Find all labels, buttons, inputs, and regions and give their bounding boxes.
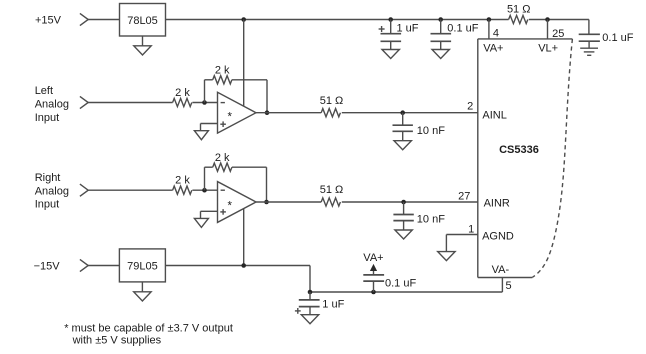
svg-text:2: 2 — [467, 101, 473, 113]
wire to AINR pin 27 — [342, 201, 478, 203]
svg-text:10 nF: 10 nF — [417, 213, 445, 225]
svg-text:78L05: 78L05 — [127, 15, 158, 27]
svg-text:1: 1 — [468, 223, 474, 235]
svg-text:51 Ω: 51 Ω — [507, 3, 531, 15]
svg-text:AINL: AINL — [482, 109, 506, 121]
wire op-amp U1 positive supply — [243, 20, 245, 107]
node +15V input label — [35, 15, 62, 27]
svg-text:AINR: AINR — [484, 198, 510, 210]
regulator U2 78L05 — [120, 4, 166, 37]
svg-text:* must be capable of ±3.7 V ou: * must be capable of ±3.7 V output — [64, 323, 233, 335]
svg-text:Input: Input — [35, 199, 59, 211]
svg-text:2 k: 2 k — [175, 175, 190, 187]
IC CS5336 body — [478, 39, 573, 278]
svg-text:Analog: Analog — [35, 185, 69, 197]
ground at U1 + input — [194, 124, 217, 140]
wire -15V input to regulator — [87, 265, 119, 267]
svg-text:VL+: VL+ — [538, 43, 558, 55]
resistor R3 51 ohm — [507, 3, 531, 23]
resistor R6 2k right input — [173, 175, 192, 195]
resistor R8 51 ohm right — [320, 184, 344, 206]
junction pin25 branch — [545, 17, 550, 22]
wire left input — [87, 102, 172, 104]
svg-text:0.1 uF: 0.1 uF — [385, 277, 416, 289]
regulator U4 79L05 — [119, 249, 165, 282]
wire left op-amp output — [256, 112, 321, 114]
capacitor C1 1 uF — [379, 17, 419, 58]
svg-text:10 nF: 10 nF — [417, 125, 445, 137]
connector J1 +15V chevron — [80, 13, 88, 25]
junction pin4 branch — [487, 17, 492, 22]
wire drop to far right cap — [588, 20, 590, 35]
connector J4 -15V chevron — [80, 259, 88, 271]
node VA+ arrow — [363, 252, 383, 271]
svg-text:1 uF: 1 uF — [397, 22, 419, 34]
capacitor C3 0.1 uF far right — [579, 32, 634, 48]
wire resistor to op-amp — [192, 102, 217, 104]
connector J3 right input chevron — [80, 184, 88, 196]
svg-text:0.1 uF: 0.1 uF — [447, 22, 478, 34]
capacitor C8 0.1 uF VA+ — [363, 271, 416, 292]
node -15V input label — [34, 260, 61, 272]
wire VA- rail — [310, 291, 502, 293]
junction op-amp supply — [241, 17, 246, 22]
ground at U3 + input — [194, 211, 217, 227]
svg-text:Right: Right — [35, 172, 61, 184]
junction 1uF bottom tap — [308, 290, 313, 295]
svg-text:79L05: 79L05 — [127, 260, 158, 272]
svg-text:*: * — [228, 201, 233, 213]
op-amp U1 left — [218, 92, 257, 133]
svg-text:CS5336: CS5336 — [499, 144, 539, 156]
junction right summing node — [202, 188, 207, 193]
ground below 79L05 — [134, 282, 151, 301]
note footnote text — [64, 323, 233, 347]
svg-text:Left: Left — [35, 85, 53, 97]
svg-text:−15V: −15V — [34, 260, 61, 272]
wire -5V rail — [165, 265, 310, 267]
junction 10nF right tap — [401, 200, 406, 205]
svg-text:VA+: VA+ — [363, 252, 383, 264]
wire to AINL pin 2 — [342, 112, 478, 114]
svg-text:with ±5 V supplies: with ±5 V supplies — [72, 334, 162, 346]
capacitor C6 10 nF right — [393, 202, 445, 239]
wire pin 25 stub — [547, 20, 549, 39]
svg-text:1 uF: 1 uF — [322, 298, 344, 310]
wire pin 5 stub — [501, 278, 503, 293]
svg-text:Input: Input — [35, 112, 59, 124]
svg-text:2 k: 2 k — [215, 64, 230, 76]
junction VA+ cap tap — [371, 290, 376, 295]
svg-text:27: 27 — [458, 191, 470, 203]
wire AGND pin 1 — [446, 235, 477, 252]
junction op-amp negative supply — [241, 263, 246, 268]
resistor R2 2k left feedback — [205, 64, 268, 112]
connector J2 left input chevron — [80, 96, 88, 108]
wire -5V rail corner down — [309, 266, 311, 293]
junction left feedback tap — [265, 110, 270, 115]
resistor R7 2k right feedback — [205, 152, 267, 202]
svg-text:*: * — [228, 111, 233, 123]
capacitor C5 10 nF left — [393, 113, 446, 150]
resistor R1 2k left input — [173, 87, 192, 107]
svg-text:2 k: 2 k — [215, 152, 230, 164]
svg-text:Analog: Analog — [35, 99, 69, 111]
svg-text:51 Ω: 51 Ω — [320, 95, 344, 107]
ground below 78L05 — [134, 36, 151, 55]
wire right op-amp output — [256, 201, 321, 203]
resistor R5 51 ohm left — [320, 95, 344, 117]
wire +5V rail — [166, 19, 509, 21]
wire +15V input to regulator — [87, 19, 119, 21]
svg-text:5: 5 — [506, 280, 512, 292]
svg-text:2 k: 2 k — [175, 87, 190, 99]
svg-text:VA-: VA- — [492, 264, 510, 276]
svg-text:51 Ω: 51 Ω — [320, 184, 344, 196]
capacitor C2 0.1 uF — [431, 17, 479, 58]
svg-text:25: 25 — [552, 28, 564, 40]
IC pin labels — [458, 28, 564, 293]
svg-text:0.1 uF: 0.1 uF — [602, 32, 633, 44]
ground at AGND — [438, 252, 455, 261]
wire resistor to op-amp right — [192, 189, 217, 191]
svg-text:+15V: +15V — [35, 15, 62, 27]
junction right feedback tap — [264, 200, 269, 205]
earth ground far right — [580, 48, 598, 55]
junction left summing node — [202, 100, 207, 105]
node Left Analog Input label — [35, 85, 69, 124]
ground below C7 — [301, 315, 318, 324]
wire pin 4 stub — [488, 20, 490, 39]
wire right input — [87, 189, 172, 191]
svg-text:AGND: AGND — [482, 231, 514, 243]
svg-text:VA+: VA+ — [483, 42, 503, 54]
wire op-amp U3 negative supply — [243, 208, 245, 265]
wire +5V rail right of R3 — [529, 19, 589, 21]
op-amp U3 right — [218, 182, 257, 223]
node Right Analog Input label — [35, 172, 69, 211]
svg-text:4: 4 — [493, 28, 499, 40]
capacitor C7 1 uF bottom — [295, 292, 345, 315]
junction 10nF left tap — [400, 110, 405, 115]
